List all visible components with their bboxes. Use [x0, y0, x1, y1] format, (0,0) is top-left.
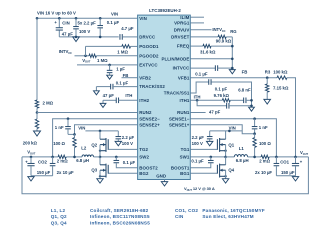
wire 100R right bot [254, 147, 256, 157]
svg-text:100 Ω: 100 Ω [53, 141, 65, 146]
wire 47pF branch [197, 100, 227, 106]
wire sense left to vout [22, 156, 58, 158]
wire PGOOD2 wire [96, 55, 137, 57]
resistor 2 mOhm left [58, 155, 66, 158]
capacitor 0.1uF INTVCC [215, 65, 217, 71]
wire SENSE2+ wire [75, 125, 138, 135]
wire ITH1 wire b [230, 99, 243, 101]
svg-text:Q3, Q4: Q3, Q4 [51, 220, 67, 225]
wire right cap gnd join [276, 175, 295, 177]
node VIN-CIN junction [58, 17, 61, 20]
svg-text:6.8 nF: 6.8 nF [238, 87, 251, 92]
wire 1nF left bot stub [67, 129, 69, 134]
svg-text:L1: L1 [239, 146, 245, 151]
wire SENSE2- wire [53, 119, 138, 157]
svg-text:Sun Elect, 63HVH47M: Sun Elect, 63HVH47M [202, 214, 253, 219]
svg-text:2x 10 µF: 2x 10 µF [255, 170, 272, 175]
wire VOUT bus [22, 157, 308, 194]
svg-text:EXTVCC: EXTVCC [139, 63, 158, 68]
ground below ith2 [100, 103, 106, 107]
svg-text:Q1: Q1 [228, 142, 234, 147]
svg-text:TG2: TG2 [139, 147, 148, 152]
wire 1nF left top stub [67, 119, 69, 127]
wire 2M to RUN node [36, 108, 38, 112]
transistor Q3 [100, 164, 108, 178]
wire CO1 bot stub [295, 166, 297, 176]
svg-text:0.1 µF: 0.1 µF [195, 71, 208, 76]
wire BG1 wire [191, 172, 218, 174]
svg-text:SENSE1−: SENSE1− [169, 116, 190, 121]
svg-text:6.8 µH: 6.8 µH [76, 158, 89, 163]
wire boost2 top stub [115, 157, 117, 160]
svg-text:RUN1: RUN1 [177, 110, 190, 115]
transistor Q1 [217, 138, 225, 152]
svg-text:7.15 kΩ: 7.15 kΩ [273, 86, 289, 91]
wire SENSE1- wire [191, 119, 277, 157]
svg-text:RUN2: RUN2 [139, 110, 152, 115]
svg-text:ILIM: ILIM [180, 15, 189, 20]
svg-text:RG: RG [230, 29, 237, 34]
node SW2 q node [99, 156, 102, 159]
wire 7.15k top [266, 78, 268, 84]
svg-text:VFB2: VFB2 [139, 75, 151, 80]
wire DRVSET wire b [226, 36, 232, 38]
node rail freq node [231, 45, 234, 48]
svg-text:DRVSET: DRVSET [171, 35, 189, 40]
svg-text:100 V: 100 V [122, 141, 133, 146]
svg-text:2.2 µF: 2.2 µF [192, 135, 205, 140]
capacitor 0.1uF boost1 [208, 160, 214, 162]
wire 100R right top [254, 134, 256, 138]
capacitor 2x10uF right [274, 163, 280, 165]
node right vout sense node [253, 156, 256, 159]
node sense1 100R node [253, 132, 256, 135]
svg-text:SW2: SW2 [139, 155, 149, 160]
svg-text:0.1 µF: 0.1 µF [123, 160, 136, 165]
svg-text:4.7 µF: 4.7 µF [121, 26, 134, 31]
svg-text:Panasonic, 16TQC150MYF: Panasonic, 16TQC150MYF [202, 208, 265, 213]
wire input gnd rail [59, 36, 118, 38]
wire 47pF branch b [229, 105, 252, 107]
resistor 1 MOhm PGOOD1 [122, 45, 131, 48]
wire DRVSET wire a [191, 36, 219, 38]
svg-text:VPRG1: VPRG1 [174, 21, 190, 26]
wire Q4 source [225, 170, 227, 179]
wire Q2 source [99, 145, 101, 157]
resistor 2 MOhm [35, 100, 38, 108]
svg-text:VIN: VIN [78, 126, 85, 131]
svg-text:TRACK/SS1: TRACK/SS1 [164, 91, 190, 96]
ground below 7.15k [264, 99, 271, 104]
node EXTVCC cap node [108, 64, 111, 67]
ground below 200k [34, 131, 41, 136]
wire ITH2 down [102, 100, 104, 103]
wire RUN2 net [37, 112, 138, 114]
wire 1uF bottom [109, 73, 111, 75]
resistor 1 MOhm PGOOD2 [89, 54, 96, 57]
ground below CO1 [292, 177, 298, 181]
svg-text:1 MΩ: 1 MΩ [117, 50, 128, 55]
node comp rail node b [250, 105, 253, 108]
capacitor 47pF ITH2 [116, 98, 118, 104]
svg-text:Q1, Q2: Q1, Q2 [51, 214, 67, 219]
wire left cap gnd join [31, 175, 53, 177]
wire C3 top stub [99, 18, 101, 25]
node sense2 100R node [73, 133, 76, 136]
inductor L1 6.8uH [234, 155, 247, 157]
wire Q3 source [99, 170, 101, 179]
capacitor 0.1uF input [97, 26, 103, 28]
svg-text:SENSE2+: SENSE2+ [139, 122, 160, 127]
svg-text:LTC3892EUH-2: LTC3892EUH-2 [149, 8, 181, 13]
wire 1nF right top stub [254, 119, 256, 127]
svg-text:0.1 µF: 0.1 µF [107, 20, 120, 25]
svg-text:6.8 µH: 6.8 µH [236, 158, 249, 163]
wire INTVCC wire a [191, 67, 216, 69]
wire 100R left bot [74, 147, 76, 157]
svg-text:100 V: 100 V [192, 141, 203, 146]
capacitor CIN 47uF electrolytic [56, 28, 63, 30]
wire SW1 wire [191, 156, 226, 158]
node right vout co1 node [294, 156, 297, 159]
node PGOOD branch node [84, 55, 87, 58]
wire boost1 top stub [210, 157, 212, 160]
wire INTVCC to PGOOD2 [75, 55, 90, 57]
node SW2 boost node [115, 156, 118, 159]
capacitor CO1 150uF [292, 163, 299, 165]
wire C2 bottom stub [75, 29, 77, 37]
svg-text:1 nF: 1 nF [55, 125, 64, 130]
wire RUN node to 200k [36, 113, 38, 120]
svg-text:90.9 kΩ: 90.9 kΩ [216, 38, 232, 43]
svg-text:TG1: TG1 [181, 147, 190, 152]
ground below track ss2 [94, 91, 100, 95]
svg-text:1 µF: 1 µF [116, 67, 125, 72]
wire L2 to SW2 [94, 156, 101, 158]
capacitor 6.8nF [244, 98, 246, 104]
svg-text:1 nF: 1 nF [259, 125, 268, 130]
svg-text:150 µF: 150 µF [281, 170, 295, 175]
svg-text:47 µF: 47 µF [62, 31, 73, 36]
svg-text:CO1: CO1 [280, 159, 289, 164]
svg-text:SENSE1+: SENSE1+ [169, 122, 190, 127]
wire Q4 drain [225, 157, 227, 165]
node right vin q1 node [228, 130, 231, 133]
node gnd rail C3 j [99, 36, 102, 39]
wire VPRG1 stub [191, 22, 205, 24]
wire cer1 top stub [275, 157, 277, 163]
wire VFB2 stub [122, 77, 138, 79]
wire FREQ wire a [191, 45, 203, 47]
svg-text:0.1 µF: 0.1 µF [191, 158, 204, 163]
svg-text:BG2: BG2 [139, 171, 149, 176]
svg-text:PGOOD2: PGOOD2 [139, 53, 159, 58]
resistor 9.76k [222, 99, 230, 102]
wire 7.15k to gnd [266, 92, 268, 99]
transistor Q2 [100, 138, 108, 152]
svg-text:VIN: VIN [229, 125, 236, 130]
wire right bias rail [231, 37, 233, 70]
svg-text:CO2: CO2 [38, 159, 47, 164]
svg-text:VIN: VIN [139, 16, 147, 21]
svg-text:Coilcraft, SER2918H-682: Coilcraft, SER2918H-682 [90, 208, 149, 213]
wire 200k to gnd [36, 129, 38, 131]
node right vout cer node [275, 156, 278, 159]
wire VIN input rail [37, 17, 138, 19]
node left vin q2 node [99, 130, 102, 133]
wire TRACKSS1 wire b [211, 82, 251, 107]
ground right bias rail gnd [229, 70, 235, 74]
capacitor 5x 2.2uF [73, 27, 79, 29]
wire C2 top stub [75, 18, 77, 26]
node left vout co2 node [30, 156, 33, 159]
svg-text:2 mΩ: 2 mΩ [57, 159, 68, 164]
svg-text:2x 10 µF: 2x 10 µF [57, 170, 74, 175]
svg-text:BG1: BG1 [180, 171, 190, 176]
node left vout sense node [73, 156, 76, 159]
svg-text:R3: R3 [265, 69, 271, 74]
wire ILIM stub [191, 16, 205, 18]
svg-text:VFB1: VFB1 [178, 75, 190, 80]
wire CIN bottom stub [58, 30, 60, 37]
svg-text:SENSE2−: SENSE2− [139, 116, 160, 121]
wire RUN1 stub [191, 112, 206, 114]
wire CO2 top stub [30, 157, 32, 163]
svg-text:PGOOD1: PGOOD1 [139, 44, 159, 49]
wire R3 to VOUT rail [287, 78, 296, 157]
wire TG2 wire [108, 148, 137, 150]
node VIN rail left corner [36, 17, 39, 20]
wire C3 bottom stub [99, 28, 101, 37]
capacitor 4.7uF DRVCC [120, 34, 122, 40]
wire SW2 wire [100, 156, 138, 158]
capacitor 2.2uF left [116, 137, 122, 139]
ground IC ground [161, 182, 167, 186]
node rail pll node [231, 58, 234, 61]
svg-text:2.2 µF: 2.2 µF [122, 135, 135, 140]
node gnd rail CIN2 j [75, 36, 78, 39]
inductor L2 6.8uH [82, 155, 94, 157]
svg-text:GND: GND [156, 174, 166, 179]
resistor RG 90.9k [218, 35, 226, 38]
wire PGOOD1 wire b [131, 45, 138, 47]
svg-text:CO1, CO2: CO1, CO2 [175, 208, 198, 213]
wire ITH1 wire a [191, 99, 223, 101]
wire DRVUV wire [191, 29, 212, 31]
wire boost1 to BOOST1 [191, 163, 211, 168]
ground below Q4 [222, 179, 228, 183]
wire L2 to sense [66, 156, 82, 158]
svg-text:ITH1: ITH1 [180, 98, 190, 103]
svg-text:CIN: CIN [175, 214, 184, 219]
ground comp rail gnd [249, 107, 255, 111]
wire sense right to vout [269, 156, 308, 158]
capacitor 1 nF left [65, 127, 71, 129]
svg-text:2 MΩ: 2 MΩ [43, 101, 54, 106]
svg-text:31.6 kΩ: 31.6 kΩ [200, 49, 216, 54]
wire sense2+ link [68, 133, 75, 135]
node comp rail node a [250, 99, 253, 102]
svg-text:FREQ: FREQ [177, 44, 190, 49]
resistor 100 Ohm left [73, 138, 76, 148]
ground below Q3 [97, 179, 103, 183]
wire cer2 top stub [52, 157, 54, 163]
capacitor 0.1uF boost2 [114, 160, 120, 162]
wire boost2 to BOOST2 [116, 163, 137, 168]
wire TRACKSS2 wire b [113, 86, 138, 88]
wire TRACKSS2 wire a [96, 86, 110, 88]
svg-text:0.1 µF: 0.1 µF [116, 81, 129, 86]
svg-text:Infineon, BSC117N08NS5: Infineon, BSC117N08NS5 [90, 214, 150, 219]
node VIN-C3 junction [99, 17, 102, 20]
resistor 100 Ohm right [253, 138, 256, 148]
node FB node [266, 76, 269, 79]
node VIN-C2 junction [75, 17, 78, 20]
wire left VIN wire [85, 130, 118, 132]
wire CO1 top stub [295, 157, 297, 163]
capacitor 2x10uF left [50, 163, 56, 165]
wire right VIN wire [210, 130, 243, 132]
wire CIN top stub [58, 18, 60, 27]
svg-text:47 pF: 47 pF [209, 109, 221, 114]
transistor Q4 [217, 164, 225, 178]
node sense2 1nF node [67, 117, 70, 120]
wire 1nF right bot stub [254, 129, 256, 134]
wire FREQ wire b [211, 45, 232, 47]
svg-text:Q4: Q4 [228, 168, 234, 173]
wire INTVCC wire b [218, 67, 233, 69]
svg-text:FB: FB [242, 69, 248, 74]
wire IC GND stub [164, 180, 166, 182]
svg-text:0.1 µF: 0.1 µF [215, 86, 228, 91]
svg-text:SW1: SW1 [180, 155, 190, 160]
capacitor 0.1uF TRACK/SS1 [209, 79, 211, 85]
svg-text:ITH: ITH [194, 95, 201, 100]
wire CO2 bot stub [30, 166, 32, 176]
wire L1 to sense [248, 156, 261, 158]
wire ITH2 wire b [119, 99, 138, 101]
capacitor 2.2uF right [207, 137, 213, 139]
wire SENSE1+ wire [191, 125, 255, 134]
wire DRVCC wire [122, 36, 137, 38]
ground below 2.2uF right [207, 141, 213, 145]
capacitor 1 uF [107, 70, 113, 72]
svg-text:100 kΩ: 100 kΩ [273, 69, 288, 74]
svg-text:VIN 16 V up to 60 V: VIN 16 V up to 60 V [37, 11, 76, 16]
svg-text:150 µF: 150 µF [37, 170, 51, 175]
svg-text:9.76 kΩ: 9.76 kΩ [214, 93, 230, 98]
svg-text:L2: L2 [81, 146, 87, 151]
svg-text:L1, L2: L1, L2 [51, 208, 66, 213]
wire Q1 drain [225, 131, 227, 139]
svg-text:TRACK/SS2: TRACK/SS2 [139, 84, 165, 89]
wire cer1 bot stub [275, 166, 277, 176]
wire 100R left top [74, 134, 76, 137]
wire TRACKSS2 down [95, 87, 97, 91]
svg-text:PLLIN/MODE: PLLIN/MODE [162, 56, 190, 61]
wire Q2 drain [99, 131, 101, 139]
svg-text:5x 2.2 µF: 5x 2.2 µF [78, 20, 97, 25]
wire 1uF stub [109, 65, 111, 70]
svg-text:VIN: VIN [111, 12, 118, 17]
ground below 1uF [107, 75, 113, 79]
wire EXTVCC wire [77, 64, 138, 66]
IC U1 LTC3892EUH-2 body [138, 15, 191, 179]
ground below CO2 [28, 177, 34, 181]
ground input ground [73, 37, 80, 42]
capacitor 47 pF [227, 103, 229, 109]
svg-text:2 mΩ: 2 mΩ [259, 159, 270, 164]
svg-text:DRVUV: DRVUV [174, 27, 190, 32]
svg-text:BOOST1: BOOST1 [171, 165, 190, 170]
wire PLLINMODE wire [191, 58, 233, 60]
wire TRACKSS1 stub [191, 82, 209, 93]
wire BG2 wire [108, 172, 137, 174]
wire left 2.2uF bot [117, 139, 119, 141]
capacitor 0.1uF TRACK/SS2 [111, 84, 113, 90]
wire VFB1 wire [191, 77, 278, 79]
wire ITH2 wire a [103, 99, 116, 101]
wire TG1 wire [191, 148, 218, 150]
svg-text:200 kΩ: 200 kΩ [23, 140, 38, 145]
svg-text:DRVCC: DRVCC [139, 35, 156, 40]
capacitor 1 nF right [252, 127, 258, 129]
svg-text:1 MΩ: 1 MΩ [97, 58, 108, 63]
resistor 7.15k [266, 84, 269, 92]
node SW1 boost node [210, 156, 213, 159]
resistor 200 kOhm [35, 119, 38, 129]
svg-text:ITH2: ITH2 [139, 98, 149, 103]
wire right 2.2uF stub [209, 131, 211, 136]
resistor R3 100k [277, 76, 287, 79]
node RUN divider node [36, 111, 39, 114]
wire PGOOD branch up [85, 46, 87, 55]
svg-text:47 pF: 47 pF [103, 93, 115, 98]
svg-text:INTVCC: INTVCC [173, 66, 191, 71]
ground below 2.2uF left [115, 141, 121, 145]
svg-text:100 Ω: 100 Ω [259, 141, 271, 146]
node sense1 1nF node [253, 117, 256, 120]
wire ITH1 wire c [246, 99, 252, 101]
node left vout cer node [51, 156, 54, 159]
svg-text:100 V: 100 V [79, 29, 90, 34]
svg-text:Q2: Q2 [91, 142, 97, 147]
wire SW1 to L1 [226, 156, 235, 158]
svg-text:CIN: CIN [62, 21, 69, 26]
wire right 2.2uF bot [209, 139, 211, 141]
wire left 2.2uF stub [117, 131, 119, 136]
node rail intvcc node [231, 67, 234, 70]
wire cer2 bot stub [52, 166, 54, 176]
wire PGOOD1 wire a [86, 45, 122, 47]
resistor 31.6k [203, 44, 211, 47]
svg-text:ITH: ITH [125, 93, 132, 98]
svg-text:Infineon, BSC026N08NS5: Infineon, BSC026N08NS5 [90, 220, 150, 225]
node SW1 q node [224, 156, 227, 159]
resistor 2 mOhm right [261, 155, 269, 158]
node ITH1 node [196, 99, 199, 102]
capacitor CO2 150uF [27, 163, 34, 165]
wire VIN left rail down [36, 18, 38, 100]
svg-text:Q3: Q3 [91, 168, 97, 173]
wire Q1 source [225, 145, 227, 157]
wire Q3 drain [99, 157, 101, 165]
svg-text:BOOST2: BOOST2 [139, 165, 158, 170]
